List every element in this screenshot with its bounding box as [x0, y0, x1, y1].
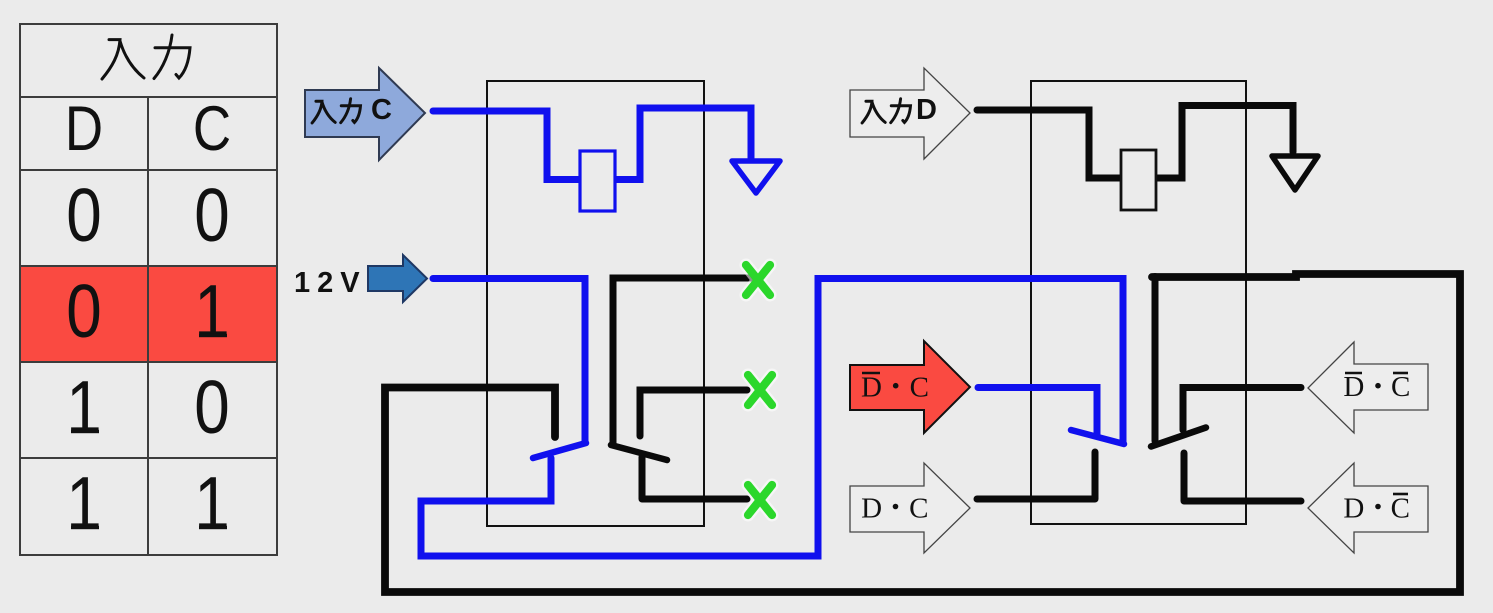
wire: K1 left lower terminal, blue output loop to K2 left pole [421, 279, 1123, 557]
svg-text:0: 0 [66, 269, 101, 353]
K2 left contact blade (blue) [1071, 430, 1124, 444]
coil K1 (blue outline) [580, 151, 615, 211]
wire: K2 right lower terminal to D.C-bar arrow [1184, 453, 1301, 501]
arrow 12V [368, 255, 427, 302]
svg-text:D: D [916, 94, 937, 126]
arrow D dot C (white) [850, 463, 970, 553]
svg-text:0: 0 [194, 173, 229, 257]
relay K1 box [487, 81, 704, 526]
wire: K1 right lower terminal to X3 [642, 457, 747, 499]
svg-text:D: D [1343, 371, 1364, 403]
wire: K2 right contact pole from bus [1152, 277, 1159, 442]
svg-text:C: C [1391, 493, 1410, 525]
svg-text:C: C [910, 372, 929, 404]
serif feet on table "1" digits [71, 334, 227, 529]
svg-text:C: C [1391, 371, 1410, 403]
wire: 12V black bus loop (right relay top, right side, bottom, up to K1 NC terminal) [385, 274, 1460, 592]
svg-text:0: 0 [66, 173, 101, 257]
svg-text:D: D [65, 94, 103, 164]
wire: K1 right contact pole to X1 [613, 278, 753, 444]
table header D C [65, 94, 231, 164]
truth table red row highlight [20, 266, 277, 362]
wire: K2 right NO terminal from D.C-bar arrow [1183, 388, 1301, 431]
label 入力D [862, 99, 910, 123]
table header 入力 [102, 35, 190, 79]
K2 right contact blade [1151, 428, 1206, 447]
arrow D-bar dot C-bar (white, left) [1308, 342, 1428, 433]
green X no.1 [746, 265, 770, 295]
svg-text:D: D [1343, 493, 1364, 525]
svg-text:0: 0 [194, 365, 229, 449]
wire: K1 coil circuit from 入力C (blue) [433, 108, 751, 180]
arrow 入力C [305, 68, 425, 160]
label 入力C [312, 99, 360, 123]
wire: K1 right NO terminal to X2 [640, 390, 747, 436]
wire: K2 coil circuit from 入力D [977, 106, 1293, 179]
table digits [66, 173, 229, 545]
wire: K2 left NO terminal from D-bar.C arrow (blue) [978, 388, 1097, 437]
label D-bar dot C [861, 372, 929, 404]
wire: 12V blue feed to K1 left pole [433, 279, 585, 443]
K1 left contact blade (closed, blue) [533, 443, 586, 458]
wire: K2 left lower terminal to D.C arrow [977, 452, 1095, 499]
truth table grid [20, 24, 277, 555]
ground K1 (blue) [732, 161, 780, 193]
label D-bar dot C-bar [1343, 371, 1410, 403]
svg-text:1: 1 [66, 461, 101, 545]
svg-text:1: 1 [194, 269, 229, 353]
arrow D dot C-bar (white, left) [1308, 463, 1428, 553]
svg-text:C: C [909, 493, 928, 525]
svg-text:12V: 12V [294, 267, 367, 299]
svg-text:D: D [861, 372, 882, 404]
label D dot C [861, 493, 928, 525]
coil K2 [1121, 150, 1156, 210]
green X no.3 [748, 485, 772, 515]
svg-text:C: C [193, 94, 231, 164]
arrow D-bar dot C (red) [850, 341, 970, 433]
svg-text:1: 1 [66, 365, 101, 449]
ground K2 [1272, 156, 1318, 190]
green X no.2 [748, 375, 772, 405]
svg-text:C: C [371, 94, 392, 126]
svg-text:D: D [861, 493, 882, 525]
relay K2 box [1031, 81, 1246, 524]
label D dot C-bar [1343, 493, 1410, 525]
arrow 入力D [850, 68, 970, 159]
svg-text:1: 1 [194, 461, 229, 545]
K1 right contact blade [611, 445, 667, 460]
